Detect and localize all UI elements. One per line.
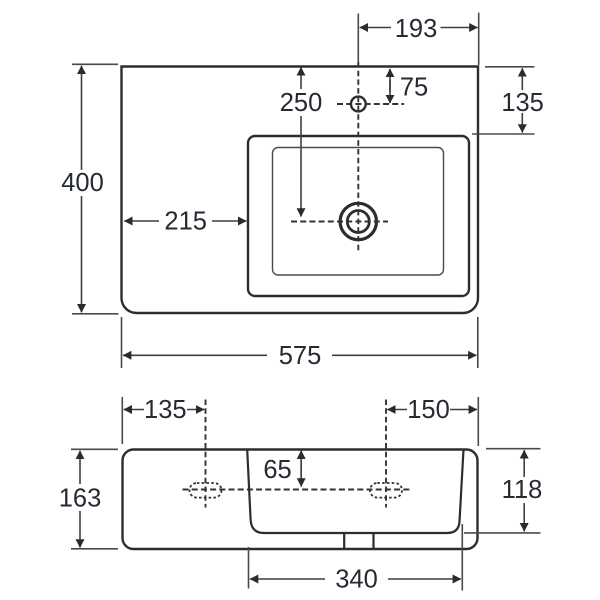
svg-text:135: 135: [501, 89, 544, 117]
svg-text:215: 215: [164, 208, 207, 236]
svg-text:118: 118: [502, 476, 543, 504]
svg-text:340: 340: [335, 566, 378, 594]
svg-text:250: 250: [280, 89, 323, 117]
svg-text:150: 150: [407, 396, 450, 424]
svg-text:400: 400: [61, 169, 104, 197]
svg-text:65: 65: [263, 456, 291, 484]
svg-text:75: 75: [400, 74, 428, 102]
svg-text:193: 193: [395, 15, 438, 43]
svg-text:163: 163: [59, 485, 102, 513]
svg-text:135: 135: [144, 396, 187, 424]
svg-text:575: 575: [279, 342, 322, 370]
